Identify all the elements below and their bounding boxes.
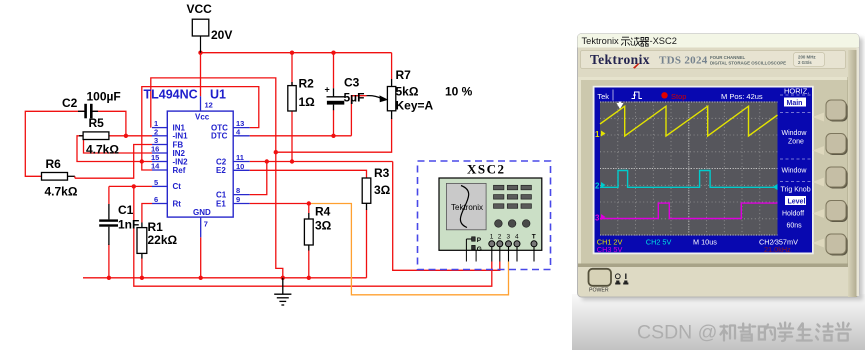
wire R5 right	[109, 135, 126, 137]
svg-text:4.7kΩ: 4.7kΩ	[45, 185, 78, 199]
svg-text:Main: Main	[787, 100, 803, 107]
logo strip	[581, 51, 846, 69]
capacitor C2	[62, 90, 121, 119]
svg-text:E2: E2	[216, 166, 226, 175]
icon terminals P G	[466, 237, 481, 262]
svg-text:R2: R2	[299, 77, 315, 91]
ground	[274, 278, 291, 305]
grid area	[600, 102, 778, 236]
svg-text:Vcc: Vcc	[195, 113, 210, 122]
svg-text:3Ω: 3Ω	[315, 219, 332, 233]
svg-text:3: 3	[595, 214, 600, 223]
svg-text:CSDN @: CSDN @	[637, 322, 717, 344]
svg-text:22kΩ: 22kΩ	[148, 233, 178, 247]
wire CH2 down to scope	[393, 162, 500, 271]
svg-text:4: 4	[515, 234, 519, 241]
wire VCC to pin12	[200, 53, 202, 97]
svg-text:2 GS/s: 2 GS/s	[798, 60, 812, 65]
svg-text:200 MHz: 200 MHz	[798, 55, 816, 60]
CSDN watermark	[637, 322, 851, 344]
svg-text:5µF: 5µF	[344, 91, 365, 105]
junction dots	[107, 51, 336, 280]
svg-text:GND: GND	[193, 208, 211, 217]
svg-text:Ct: Ct	[173, 182, 182, 191]
side buttons	[826, 100, 848, 256]
svg-text:C3: C3	[344, 76, 360, 90]
svg-text:CH3 5V: CH3 5V	[597, 245, 623, 254]
pin stubs	[152, 96, 250, 237]
svg-text:C2: C2	[216, 157, 227, 166]
svg-text:E1: E1	[216, 199, 226, 208]
icon terminals 1 2 3 4 T	[489, 234, 537, 262]
svg-text:9: 9	[236, 195, 240, 204]
title bar	[578, 34, 860, 48]
svg-text:CH2 5V: CH2 5V	[646, 237, 672, 246]
wire C1-pin8 to pin11 row	[250, 162, 267, 195]
svg-text:5kΩ: 5kΩ	[396, 85, 419, 99]
wire Ct to C1	[108, 186, 110, 204]
wire C3 bottom	[333, 110, 335, 136]
wire orange E1 to scope CH3	[309, 204, 509, 295]
wire R2 bottom	[291, 111, 293, 162]
pin numbers	[151, 101, 244, 229]
svg-text:20V: 20V	[211, 28, 232, 42]
wire R7 wiper vertical	[351, 96, 366, 136]
beige arrows to buttons	[813, 113, 825, 248]
VCC symbol	[187, 2, 233, 53]
svg-text:21.0kHz: 21.0kHz	[764, 245, 791, 254]
svg-text:Zone: Zone	[788, 139, 804, 146]
svg-text:6: 6	[154, 195, 158, 204]
resistor R5	[79, 116, 119, 157]
svg-text:-IN1: -IN1	[173, 132, 189, 141]
svg-text:FOUR CHANNEL: FOUR CHANNEL	[710, 55, 745, 60]
svg-text:TL494NC: TL494NC	[144, 87, 198, 101]
wire R6 left lead	[42, 175, 45, 177]
svg-text:Window: Window	[782, 168, 808, 175]
wire C1 bottom	[108, 244, 110, 278]
svg-text:U1: U1	[210, 87, 226, 101]
wire C2 right to R5/-IN1	[93, 111, 152, 136]
svg-text:Key=A: Key=A	[396, 99, 434, 113]
trigger position arrow	[617, 103, 624, 109]
svg-text:2: 2	[154, 127, 158, 136]
resistor R1	[137, 220, 178, 259]
svg-text:T: T	[532, 234, 536, 241]
svg-text:Tektronix: Tektronix	[582, 36, 620, 46]
pin names inside chip	[173, 113, 229, 218]
wire R1 bottom	[141, 258, 143, 278]
resistor R2	[288, 77, 315, 112]
wire OTC line A: IN1 to R7-bottom net	[151, 78, 283, 278]
svg-text:3Ω: 3Ω	[374, 183, 391, 197]
svg-text:-XSC2: -XSC2	[650, 36, 677, 46]
svg-text:14: 14	[151, 162, 160, 171]
resistor R4	[304, 205, 331, 251]
svg-text:4.7kΩ: 4.7kΩ	[86, 143, 119, 157]
wire DTC pin4 row to C3 bottom and R7 wiper	[250, 135, 352, 137]
svg-text:HORIZ.: HORIZ.	[784, 87, 809, 96]
svg-text:2: 2	[595, 182, 600, 191]
resistor R6	[42, 157, 78, 199]
XSC2 dashed box	[418, 161, 551, 270]
oscilloscope icon body	[439, 178, 542, 250]
svg-text:DTC: DTC	[211, 132, 228, 141]
wire C2 left	[25, 111, 84, 176]
icon knobs	[495, 220, 530, 228]
CH1 yellow sawtooth	[600, 106, 778, 136]
resistor R3	[362, 166, 390, 210]
svg-text:POWER: POWER	[589, 287, 609, 293]
wire Ct to scope CH1	[134, 186, 492, 286]
svg-text:C1: C1	[216, 190, 227, 199]
wire R3 bottom to bus	[366, 210, 368, 278]
svg-text:R4: R4	[315, 205, 331, 219]
wire R4 top	[308, 204, 310, 214]
op-amp/PWM chip U1 TL494NC	[144, 87, 234, 217]
svg-text:Tek: Tek	[597, 92, 609, 101]
svg-text:C2: C2	[62, 96, 78, 110]
svg-text:Level: Level	[788, 198, 806, 205]
window shadow	[582, 38, 863, 300]
svg-text:R1: R1	[148, 220, 164, 234]
svg-text:8: 8	[236, 186, 240, 195]
wire R2 top	[291, 53, 293, 86]
svg-text:Trig Knob: Trig Knob	[781, 187, 811, 194]
svg-text:R3: R3	[374, 166, 390, 180]
svg-text:Window: Window	[782, 130, 808, 137]
svg-text:VCC: VCC	[187, 2, 213, 16]
svg-text:3: 3	[507, 234, 511, 241]
svg-text:12: 12	[205, 101, 213, 110]
svg-text:M 10us: M 10us	[693, 237, 717, 246]
svg-text:Holdoff: Holdoff	[782, 211, 804, 218]
svg-text:5: 5	[154, 178, 158, 187]
svg-text:P: P	[477, 237, 482, 244]
wire R4 bottom	[308, 250, 310, 278]
capacitor C1	[99, 203, 139, 245]
svg-text:Tektronix: Tektronix	[590, 52, 650, 67]
svg-text:M Pos: 42us: M Pos: 42us	[721, 92, 763, 101]
wire R7 bottom row	[276, 119, 392, 153]
CH3 magenta pulses	[600, 203, 778, 218]
wire R5 left to -IN2	[77, 136, 152, 162]
svg-text:R5: R5	[89, 116, 105, 130]
CH2 cyan pulses	[600, 171, 778, 188]
header bar	[595, 88, 813, 102]
svg-text:10: 10	[236, 162, 244, 171]
wire Ct line pin5	[109, 185, 152, 187]
wire E2 pin10 to R3	[250, 170, 367, 178]
wire R7 top	[391, 53, 393, 79]
wire C2-pin11 row to CH2	[250, 161, 393, 163]
wire C3 top	[333, 53, 335, 89]
svg-text:XSC2: XSC2	[467, 162, 506, 177]
bottom readout bar	[597, 237, 798, 254]
svg-text:2: 2	[498, 234, 502, 241]
svg-text:7: 7	[204, 220, 208, 229]
svg-text:Stop: Stop	[671, 92, 686, 101]
screen blue background	[595, 88, 813, 253]
svg-text:10 %: 10 %	[445, 85, 473, 99]
svg-text:C1: C1	[118, 203, 134, 217]
wire GND pin7	[200, 237, 202, 277]
svg-text:G: G	[477, 246, 482, 253]
wire Rt to R1	[142, 204, 152, 223]
svg-text:11: 11	[236, 153, 244, 162]
svg-text:DIGITAL STORAGE OSCILLOSCOPE: DIGITAL STORAGE OSCILLOSCOPE	[710, 61, 786, 66]
svg-text:1Ω: 1Ω	[299, 95, 316, 109]
svg-text:Ref: Ref	[173, 166, 186, 175]
svg-text:100µF: 100µF	[87, 90, 121, 104]
wire ground bus	[83, 277, 367, 279]
HORIZ menu column	[779, 88, 812, 238]
svg-text:1: 1	[595, 130, 600, 139]
svg-text:R6: R6	[46, 157, 62, 171]
svg-text:Tektronix: Tektronix	[451, 203, 483, 212]
screen frame	[593, 86, 814, 255]
wire E1 pin9 to R4	[250, 203, 309, 205]
wire line B: OTC pin13 to Ref	[142, 87, 259, 170]
POWER button	[589, 269, 629, 294]
wire VCC top bus	[201, 52, 392, 54]
potentiometer R7	[367, 68, 473, 119]
wire FB to R6	[75, 145, 152, 179]
svg-text:1: 1	[490, 234, 494, 241]
svg-text:TDS 2024: TDS 2024	[659, 55, 708, 67]
window body	[578, 34, 860, 297]
capacitor C3 polarized	[325, 76, 365, 111]
svg-text:+: +	[325, 85, 330, 95]
svg-text:1nF: 1nF	[118, 218, 139, 232]
svg-text:Rt: Rt	[173, 199, 182, 208]
icon buttons 3x3	[494, 185, 532, 208]
wire IN2 pin16	[84, 136, 153, 153]
screen bezel	[578, 77, 851, 267]
CJK title glyphs (示波器)	[621, 37, 649, 46]
svg-text:R7: R7	[396, 68, 412, 82]
channel markers	[595, 130, 778, 223]
svg-text:60ns: 60ns	[787, 223, 803, 230]
